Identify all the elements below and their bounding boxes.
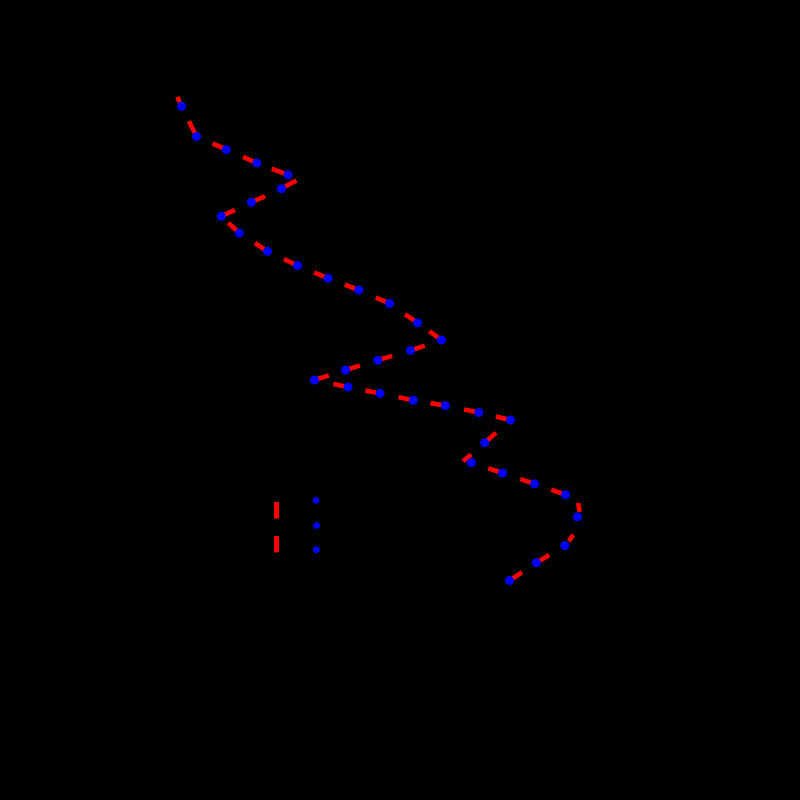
legend: blue marker sample 2 [313,522,320,529]
red dash segment d14 [376,298,386,303]
red dash segment d31 [551,490,562,494]
blue data point marker P35 [505,576,514,585]
red dash segment d7 [255,196,265,201]
blue data point marker P5 [284,170,293,179]
red dash segment d29 [488,468,499,472]
red dash segment d11 [284,259,294,264]
blue data point marker P21 [344,383,353,392]
red dash segment d34 [540,555,550,561]
red dash segment d8 [225,210,235,215]
red dash segment d9 [228,223,236,231]
legend: blue marker sample 3 [313,546,320,553]
blue data point marker P27 [480,438,489,447]
red dash segment d15 [405,314,414,320]
blue data point marker P20 [310,376,319,385]
blue data point marker P11 [293,261,302,270]
red dash segment d17 [414,346,425,350]
red dash segment d13 [345,285,355,289]
red dash segment d25 [464,410,475,412]
blue data point marker P1 [177,102,186,111]
blue data point marker P32 [573,512,582,521]
blue data point marker P28 [467,458,476,467]
red dash segment d24 [431,403,442,405]
red dash segment d28 (custom) [463,454,471,461]
red dash segment d33 (custom) [569,535,573,541]
blue data point marker P19 [341,366,350,375]
blue data point marker P4 [252,159,261,168]
red dash segment d20 [318,375,329,378]
blue data point marker P31 [561,490,570,499]
blue data point marker P22 [376,389,385,398]
legend: red dashed line sample, dash 2 [274,536,279,552]
red dash segment d27 [488,433,496,440]
blue data point marker P13 [354,286,363,295]
red dash segment d35 [513,572,522,578]
red dash segment d5 [272,169,285,174]
red dash segment d16 [429,331,438,338]
blue data point marker P30 [530,479,539,488]
blue data point marker P18 [373,356,382,365]
legend: blue marker sample 1 [313,497,320,504]
blue data point marker P2 [192,132,201,141]
blue data point marker P17 [406,346,415,355]
legend: red dashed line sample, dash 1 [274,502,279,519]
red dash segment d18 [381,356,392,359]
red dash segment d1 (custom) [177,97,179,103]
red dash segment d6 (custom) [285,181,296,187]
blue data point marker P34 [532,558,541,567]
blue data point marker P15 [413,318,422,327]
blue data point marker P23 [409,396,418,405]
red dash segment d26 [496,417,507,420]
red dash segment d32 (custom) [578,503,580,512]
red dash segment d12 [314,273,324,277]
blue data point marker P33 [560,541,569,550]
red dash segment d22 [365,391,376,393]
blue data point marker P12 [324,274,333,283]
red dash segment d21 [333,384,344,386]
red dash segment d30 [520,479,531,483]
red dash segment d2 [189,121,195,133]
blue data point marker P29 [498,469,507,478]
red dash segment d3 [213,144,223,149]
blue data point marker P8 [217,212,226,221]
blue data point marker P26 [506,416,515,425]
blue data point marker P14 [385,299,394,308]
blue data point marker P7 [247,198,256,207]
blue data point marker P24 [441,401,450,410]
blue data point marker P3 [222,145,231,154]
red dash segment d23 [399,397,410,399]
blue data point marker P6 [277,184,286,193]
blue data point marker P25 [474,408,483,417]
blue data point marker P9 [235,229,244,238]
blue data point marker P10 [263,247,272,256]
blue data point marker P16 [437,336,446,345]
red dash segment d4 [243,157,253,162]
red dash segment d10 [255,243,264,249]
red dash segment d19 [349,366,360,369]
